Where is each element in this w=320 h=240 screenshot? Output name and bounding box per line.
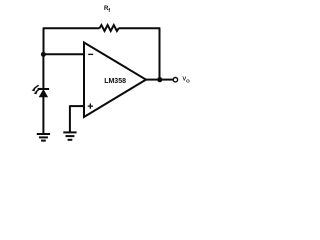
svg-text:LM358: LM358 (104, 78, 126, 85)
svg-text:Rf: Rf (104, 6, 110, 14)
photodiode D1: anode triangle (39, 90, 47, 97)
svg-text:VO: VO (183, 77, 191, 84)
wire: feedback top-left vertical (node A to top rail) (43, 28, 45, 55)
wire: node A to inverting input (43, 53, 84, 55)
photodiode D1: incident light arrow 1 (32, 85, 39, 91)
node A junction dot (inverting input node) (41, 52, 46, 57)
node B output junction dot (157, 77, 162, 82)
op-amp U1 non-inverting input plus sign (88, 104, 93, 109)
ground symbol (non-inverting input) (63, 132, 76, 139)
wire: node B to output terminal (160, 79, 173, 81)
wire: photodiode anode to ground (42, 97, 44, 134)
photodiode D1: cathode bar (38, 88, 50, 90)
wire: top rail left segment (43, 27, 100, 29)
photodiode D1: incident light arrow 2 (34, 88, 41, 94)
wire: non-inverting input horizontal (70, 105, 84, 107)
wire: non-inverting input vertical to ground (69, 105, 71, 132)
wire: top rail right segment (119, 27, 161, 29)
wire: feedback right vertical down to output node (159, 28, 161, 80)
wire: op-amp output to node B (146, 79, 160, 81)
ground symbol (photodiode) (37, 134, 50, 141)
op-amp U1 LM358 triangle (84, 43, 146, 118)
output terminal circle (173, 78, 177, 82)
resistor Rf (zigzag) (100, 25, 119, 31)
wire: node A down to photodiode cathode (42, 54, 44, 88)
op-amp U1 inverting input minus sign (88, 53, 93, 55)
